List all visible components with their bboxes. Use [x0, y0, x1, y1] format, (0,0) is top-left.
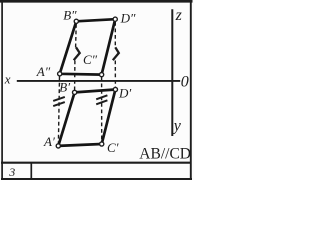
- strip divider: [30, 162, 32, 179]
- front view parallelogram A"B"D"C": [60, 19, 115, 74]
- svg-text:B″: B″: [63, 7, 77, 22]
- point C": [100, 73, 104, 77]
- svg-text:0: 0: [181, 73, 189, 90]
- svg-text:C′: C′: [107, 140, 119, 155]
- top view parallelogram A'B'D'C': [58, 90, 115, 146]
- point D": [113, 17, 117, 21]
- svg-text:3: 3: [8, 165, 15, 179]
- point B": [74, 19, 78, 23]
- projection line D: [114, 22, 116, 87]
- svg-text:y: y: [172, 118, 182, 135]
- break mark on D projection: [113, 47, 119, 60]
- point A': [56, 144, 60, 148]
- x-axis: [17, 80, 180, 82]
- border frame: [0, 0, 193, 180]
- point D': [113, 87, 117, 91]
- svg-text:A″: A″: [36, 64, 51, 79]
- point B': [73, 90, 77, 94]
- svg-text:z: z: [175, 7, 183, 24]
- title strip line: [1, 162, 192, 164]
- svg-text:D′: D′: [118, 85, 131, 100]
- z-y axis: [171, 9, 173, 136]
- break mark on B projection: [74, 47, 80, 60]
- svg-text:B′: B′: [59, 79, 70, 94]
- projection line B: [75, 24, 77, 90]
- double-slash mark on A projection: [53, 97, 65, 106]
- svg-text:A′: A′: [43, 134, 55, 149]
- projection line A: [58, 76, 59, 143]
- svg-text:AB//CD: AB//CD: [139, 145, 191, 162]
- svg-text:D″: D″: [120, 10, 136, 25]
- svg-text:C″: C″: [83, 52, 98, 67]
- point C': [100, 142, 104, 146]
- point A": [58, 72, 62, 76]
- svg-text:x: x: [4, 72, 11, 87]
- double-slash mark on C projection: [96, 95, 107, 104]
- projection line C: [101, 77, 103, 142]
